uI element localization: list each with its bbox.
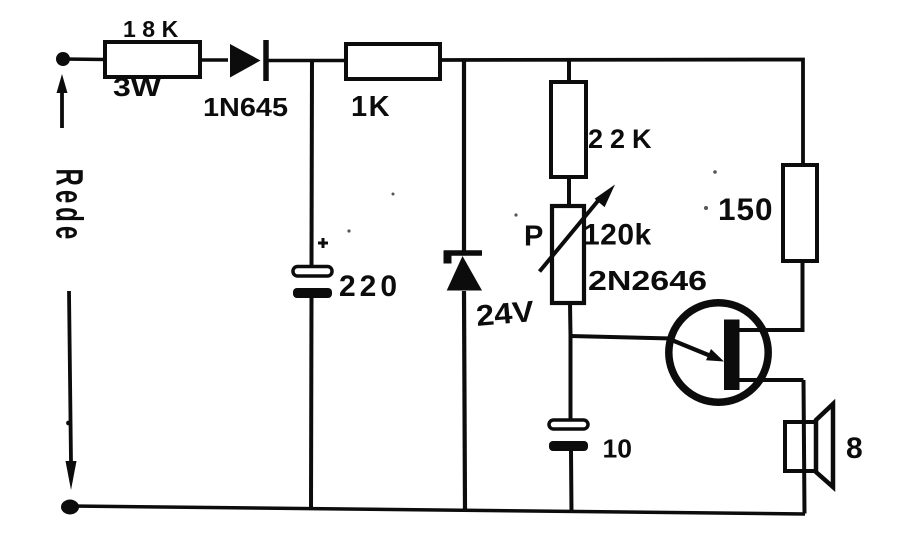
wire input to R1 [63,57,105,61]
resistor R1 18K 3W [105,42,200,77]
svg-text:24V: 24V [475,295,536,333]
wire D1 to R2 [268,59,347,63]
wire node E to emitter [571,336,673,339]
resistor R5 150 [783,165,817,261]
svg-text:1K: 1K [351,91,391,123]
wire node E down to C2 [569,335,573,420]
wire R3 to P1 [567,177,571,207]
wire to capacitor C1 [310,60,315,266]
svg-text:8: 8 [846,432,863,465]
scan specks [347,170,716,232]
diode D1 1N645 [230,40,266,81]
wire top to R3 [567,60,571,83]
svg-text:220: 220 [339,270,401,303]
wire to zener D2 [462,60,466,252]
zener D2 24V [444,251,483,291]
svg-text:1N645: 1N645 [203,92,288,122]
arrow up (Rede input) [57,74,68,128]
wire R1 to D1 [200,58,228,62]
svg-text:2N2646: 2N2646 [588,265,707,296]
wire D2 to bottom [464,291,465,511]
arrow down (Rede input) [66,291,77,490]
resistor R2 1K [346,44,440,79]
wire base B1 to speaker [739,378,804,382]
svg-text:22K: 22K [588,124,659,154]
svg-text:3W: 3W [113,72,162,102]
wire top right run [440,60,803,166]
svg-text:18K: 18K [123,16,185,42]
wire C1 to bottom [309,298,314,509]
wire C2 to bottom [569,451,574,513]
capacitor C2 10 [549,420,588,451]
wire P1 to node E [568,303,573,335]
svg-text:150: 150 [718,191,774,227]
resistor R3 22K [551,82,586,177]
svg-text:120k: 120k [583,219,652,252]
capacitor C1 220 (electrolytic) [293,238,332,298]
wire base B2 to R5 [739,261,803,330]
transistor Q1 2N2646 (UJT) [668,303,768,402]
bottom wire [70,506,805,514]
potentiometer P1 120k [540,185,616,304]
speaker LS1 [785,380,833,514]
terminal dot top-left [56,52,70,66]
svg-text:Rede: Rede [48,169,91,244]
svg-text:P: P [524,221,543,253]
svg-text:10: 10 [603,436,633,464]
terminal dot bottom-left [61,500,79,515]
